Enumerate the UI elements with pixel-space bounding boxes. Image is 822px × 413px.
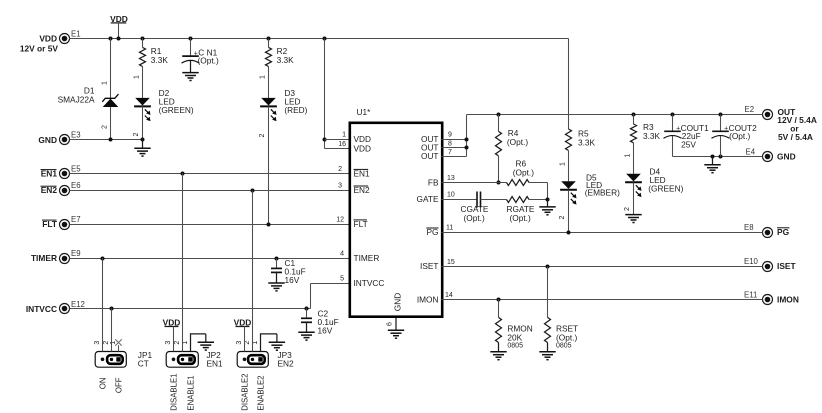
ground below CN1 <box>190 61 192 73</box>
svg-text:16V: 16V <box>285 275 300 285</box>
node GND-D2 <box>141 138 145 142</box>
svg-text:1: 1 <box>110 341 117 345</box>
svg-text:2: 2 <box>102 125 109 129</box>
svg-text:SMAJ22A: SMAJ22A <box>58 94 95 104</box>
wire R2 top lead <box>268 39 270 48</box>
svg-text:(GREEN): (GREEN) <box>648 183 683 193</box>
wire R1 top lead <box>142 39 144 48</box>
wire GND net <box>70 139 143 141</box>
svg-text:3.3K: 3.3K <box>277 55 295 65</box>
svg-text:4: 4 <box>340 251 344 258</box>
ground at JP3 <box>276 334 278 342</box>
svg-text:E12: E12 <box>71 300 85 309</box>
wire INTVCC net <box>70 308 311 310</box>
capacitor C2 <box>301 317 312 319</box>
svg-text:1: 1 <box>260 75 267 79</box>
svg-text:3.3K: 3.3K <box>643 131 661 141</box>
ground below C2 <box>306 322 308 332</box>
svg-text:11: 11 <box>446 225 453 232</box>
wire D5 to PG net <box>568 190 570 233</box>
wire CGATE-RGATE <box>481 199 507 201</box>
svg-text:VDD: VDD <box>39 34 57 44</box>
wire D1 bottom lead <box>110 107 112 140</box>
node EN1-JP2 <box>181 172 185 176</box>
svg-text:8: 8 <box>448 140 452 147</box>
svg-text:(Opt.): (Opt.) <box>729 131 750 141</box>
node GND-D1 <box>109 138 113 142</box>
resistor RGATE (Opt.) <box>507 197 530 203</box>
node TIMER-C1 <box>275 257 279 261</box>
terminal E10 (ISET) <box>763 262 773 272</box>
resistor RSET (Opt.) <box>545 317 551 342</box>
svg-text:TIMER: TIMER <box>31 253 57 263</box>
capacitor COUT2 (Opt.) <box>712 130 729 132</box>
terminal E3 (GND) <box>60 135 70 145</box>
svg-text:2: 2 <box>559 215 566 219</box>
wire JP2 pin2 to EN1 <box>182 174 184 352</box>
wire RSET lead <box>547 267 549 318</box>
terminal E1 (VDD input) <box>60 34 70 44</box>
resistor R3 <box>631 124 637 143</box>
wire VDD feed to U1 <box>324 39 326 149</box>
terminal E6 (EN2) <box>60 186 70 196</box>
svg-text:3: 3 <box>165 341 172 345</box>
svg-text:5: 5 <box>340 276 344 283</box>
node ISET-RSET <box>546 265 550 269</box>
node FLT-D3 <box>267 223 271 227</box>
wire pin9 stub <box>442 139 467 141</box>
wire INTVCC to pin5 <box>310 284 312 309</box>
node OUT-COUT2 <box>719 113 723 117</box>
ground below C1 <box>276 272 278 283</box>
wire R5-D5 <box>568 151 570 182</box>
wire COUT1 top lead <box>672 115 674 132</box>
wire RGATE to node <box>529 199 548 201</box>
svg-text:1: 1 <box>342 132 346 139</box>
wire VDD to R5 <box>568 39 570 130</box>
terminal E4 (GND) <box>763 152 773 162</box>
resistor R1 <box>140 47 146 66</box>
resistor RMON 20K <box>496 317 502 342</box>
node EN2-JP3 <box>251 189 255 193</box>
svg-text:0805: 0805 <box>507 342 523 349</box>
svg-text:7: 7 <box>448 149 452 156</box>
wire FB net <box>442 182 507 184</box>
wire D1 top lead <box>110 39 112 99</box>
wire C2 lead <box>306 309 308 319</box>
svg-text:E1: E1 <box>71 30 81 39</box>
node PG-D5 <box>567 231 571 235</box>
svg-text:PG: PG <box>777 227 789 237</box>
svg-text:FB: FB <box>428 177 439 187</box>
ground below RSET <box>547 343 549 352</box>
wire JP3 pin2 to EN2 <box>252 191 254 352</box>
svg-text:(EMBER): (EMBER) <box>585 188 620 198</box>
svg-text:CT: CT <box>138 358 149 368</box>
svg-text:IMON: IMON <box>777 295 799 305</box>
wire pin7 stub <box>442 156 467 158</box>
jumper JP2 header <box>166 352 198 368</box>
svg-text:ISET: ISET <box>420 261 438 271</box>
wire pin16 stub <box>325 148 351 150</box>
wire IMON net <box>442 299 763 301</box>
shunt on JP3 pins 1-2 <box>248 355 265 364</box>
svg-text:15: 15 <box>447 259 455 266</box>
node OUT8 <box>465 146 469 150</box>
terminal E2 (OUT) <box>763 110 773 120</box>
ground at GATE network <box>547 200 549 207</box>
svg-text:ON: ON <box>99 378 108 390</box>
wire COUT1 bottom lead <box>672 136 674 157</box>
resistor R2 <box>266 47 272 66</box>
svg-text:12: 12 <box>336 216 344 223</box>
wire GATE stub <box>442 199 478 201</box>
svg-text:2: 2 <box>624 207 631 211</box>
svg-text:+: + <box>676 125 680 132</box>
svg-text:E11: E11 <box>744 291 757 300</box>
svg-text:12V or 5V: 12V or 5V <box>20 43 59 53</box>
resistor R6 (Opt.) <box>507 180 530 186</box>
terminal E9 (TIMER) <box>60 254 70 264</box>
svg-text:(Opt.): (Opt.) <box>507 137 528 147</box>
ground below D2 <box>142 140 144 149</box>
svg-text:INTVCC: INTVCC <box>354 278 385 288</box>
ground below D4 <box>625 214 641 216</box>
svg-text:GND: GND <box>38 135 57 145</box>
svg-text:25V: 25V <box>681 139 696 149</box>
svg-text:VDD: VDD <box>354 143 372 153</box>
svg-text:OUT: OUT <box>421 151 439 161</box>
svg-text:16V: 16V <box>318 326 333 336</box>
terminal E11 (IMON) <box>763 295 773 305</box>
node gnd-sym <box>711 155 715 159</box>
svg-text:ENABLE1: ENABLE1 <box>187 376 196 411</box>
svg-text:1: 1 <box>560 162 567 166</box>
svg-text:E5: E5 <box>71 164 81 173</box>
op-amp U1 (hot swap controller) box <box>350 123 442 317</box>
svg-text:3.3K: 3.3K <box>578 138 596 148</box>
node OUT-R4 <box>497 113 501 117</box>
node FB-R4 <box>497 181 501 185</box>
svg-text:E10: E10 <box>744 257 759 266</box>
svg-text:OFF: OFF <box>115 377 124 393</box>
svg-text:2: 2 <box>103 341 110 345</box>
svg-text:(Opt.): (Opt.) <box>464 213 485 223</box>
node OUT9 <box>465 138 469 142</box>
svg-text:3.3K: 3.3K <box>151 55 169 65</box>
svg-text:E8: E8 <box>744 223 754 232</box>
svg-text:1: 1 <box>102 81 109 85</box>
diode D3 LED red <box>261 98 276 106</box>
diode D2 LED green <box>135 98 150 106</box>
svg-text:E4: E4 <box>746 148 756 157</box>
svg-text:(RED): (RED) <box>284 105 307 115</box>
svg-text:0805: 0805 <box>556 342 572 349</box>
ground at output <box>712 157 714 165</box>
svg-text:+: + <box>724 125 728 132</box>
svg-text:9: 9 <box>448 132 452 139</box>
svg-text:DISABLE2: DISABLE2 <box>241 374 250 411</box>
svg-text:(Opt.): (Opt.) <box>510 213 531 223</box>
terminal E12 (INTVCC) <box>60 304 70 314</box>
svg-text:3: 3 <box>236 341 243 345</box>
node IMON-RMON <box>497 298 501 302</box>
node OUT-COUT1 <box>671 113 675 117</box>
svg-text:E9: E9 <box>71 249 81 258</box>
wire D4 bottom lead <box>633 182 635 214</box>
svg-text:IMON: IMON <box>417 295 439 305</box>
svg-text:E7: E7 <box>71 215 81 224</box>
wire COUT2 top lead <box>720 115 722 132</box>
wire FB elbow <box>529 182 548 184</box>
node TIMER-JP1 <box>101 257 105 261</box>
resistor R5 <box>566 129 572 151</box>
svg-text:GND: GND <box>393 293 403 311</box>
svg-text:1: 1 <box>625 153 632 157</box>
svg-text:1: 1 <box>134 75 141 79</box>
node INTVCC-C2 <box>305 307 309 311</box>
wire OUT rail <box>467 114 763 116</box>
wire pin1 stub <box>325 139 351 141</box>
jumper JP3 header <box>237 352 268 368</box>
capacitor CN1 (Opt.) <box>182 55 199 57</box>
resistor R4 (Opt.) <box>496 131 502 156</box>
node gnd-COUT2 <box>719 155 723 159</box>
node feed pin1 <box>323 138 327 142</box>
node VDD-D1 <box>109 37 113 41</box>
svg-text:EN1: EN1 <box>207 358 224 368</box>
shunt on JP2 pins 1-2 <box>178 355 195 364</box>
svg-text:(Opt.): (Opt.) <box>556 332 577 342</box>
svg-text:TIMER: TIMER <box>354 253 380 263</box>
svg-text:3: 3 <box>94 341 101 345</box>
wire JP1 pin2 to INTVCC <box>111 309 113 352</box>
svg-text:14: 14 <box>445 292 453 299</box>
svg-text:10: 10 <box>447 192 455 199</box>
wire R1-D2 <box>142 67 144 98</box>
wire JP1 pin1 stub with no-connect X <box>118 345 120 351</box>
svg-text:E6: E6 <box>71 181 81 190</box>
U1 GND pin 6 stub <box>395 318 397 330</box>
terminal E8 (PG) <box>763 228 773 238</box>
diode D5 LED ember <box>561 181 576 189</box>
capacitor C1 <box>271 267 282 269</box>
ground below RMON <box>498 343 500 352</box>
svg-text:5V / 5.4A: 5V / 5.4A <box>778 132 813 142</box>
svg-text:E2: E2 <box>745 105 755 114</box>
capacitor CGATE (Opt.) <box>476 192 478 208</box>
wire COUT2 bottom lead <box>720 136 722 157</box>
wire R4 bottom lead <box>498 156 500 183</box>
svg-text:GND: GND <box>777 152 796 162</box>
terminal E5 (EN1) <box>60 169 70 179</box>
svg-text:16: 16 <box>338 141 346 148</box>
wire OUT to R3 <box>633 115 635 125</box>
wire D2 bottom lead <box>142 106 144 139</box>
node VDD-U1feed <box>323 37 327 41</box>
svg-text:3: 3 <box>338 183 342 190</box>
wire ISET net <box>442 266 763 268</box>
node VDD-R2 <box>267 37 271 41</box>
svg-text:2: 2 <box>259 133 266 137</box>
svg-text:(GREEN): (GREEN) <box>159 105 194 115</box>
ground at JP2 <box>205 334 207 342</box>
wire R2-D3 <box>268 67 270 98</box>
svg-text:EN2: EN2 <box>278 358 295 368</box>
node GATE-FB <box>546 198 550 202</box>
wire VDD rail <box>70 38 569 40</box>
svg-text:INTVCC: INTVCC <box>26 304 57 314</box>
diode D4 LED green <box>626 174 641 182</box>
node INTVCC-JP1 <box>110 307 114 311</box>
wire pin8 stub <box>442 147 467 149</box>
svg-text:U1*: U1* <box>357 107 372 117</box>
svg-text:2: 2 <box>133 132 140 136</box>
wire TIMER net <box>70 258 351 260</box>
svg-text:DISABLE1: DISABLE1 <box>170 374 179 411</box>
wire JP3 pin1 to ground <box>261 334 277 352</box>
node VDD-CN1 <box>189 37 193 41</box>
svg-text:2: 2 <box>338 166 342 173</box>
svg-text:6: 6 <box>387 322 394 326</box>
wire CN1 top lead <box>190 39 192 57</box>
wire EN2 net <box>70 190 351 192</box>
node VDD-R1 <box>141 37 145 41</box>
wire EN1 net <box>70 173 351 175</box>
svg-text:E3: E3 <box>71 131 81 140</box>
wire RMON lead <box>498 300 500 318</box>
wire D3 to FLT net <box>268 106 270 224</box>
svg-text:VDD: VDD <box>163 317 181 327</box>
node VDD-sym <box>117 37 121 41</box>
svg-text:VDD: VDD <box>234 317 252 327</box>
jumper JP1 header <box>95 352 126 368</box>
wire OUT bus vertical <box>466 115 468 157</box>
svg-text:GATE: GATE <box>417 194 439 204</box>
svg-text:13: 13 <box>447 175 455 182</box>
svg-text:20K: 20K <box>507 332 522 342</box>
wire JP1 pin3 to TIMER <box>102 259 104 352</box>
wire output GND net <box>673 156 763 158</box>
node OUT-R3 <box>632 113 636 117</box>
terminal E7 (FLT) <box>60 220 70 230</box>
wire JP2 pin1 to ground <box>191 334 206 352</box>
wire C1 lead <box>276 259 278 269</box>
svg-text:2: 2 <box>174 341 181 345</box>
svg-text:(Opt.): (Opt.) <box>198 56 219 66</box>
wire FLT net <box>70 224 351 226</box>
diode D1 SMAJ22A (TVS) <box>103 99 119 107</box>
svg-text:ISET: ISET <box>777 261 796 271</box>
ground below U1 pin 6 <box>388 329 404 331</box>
svg-text:ENABLE2: ENABLE2 <box>257 376 266 411</box>
capacitor COUT1 22uF 25V <box>664 130 681 132</box>
wire R4 top lead <box>498 115 500 132</box>
wire R3-D4 <box>633 143 635 174</box>
svg-text:(Opt.): (Opt.) <box>513 168 534 178</box>
wire PG net <box>442 232 763 234</box>
shunt on JP1 pins 1-2 <box>107 355 123 364</box>
